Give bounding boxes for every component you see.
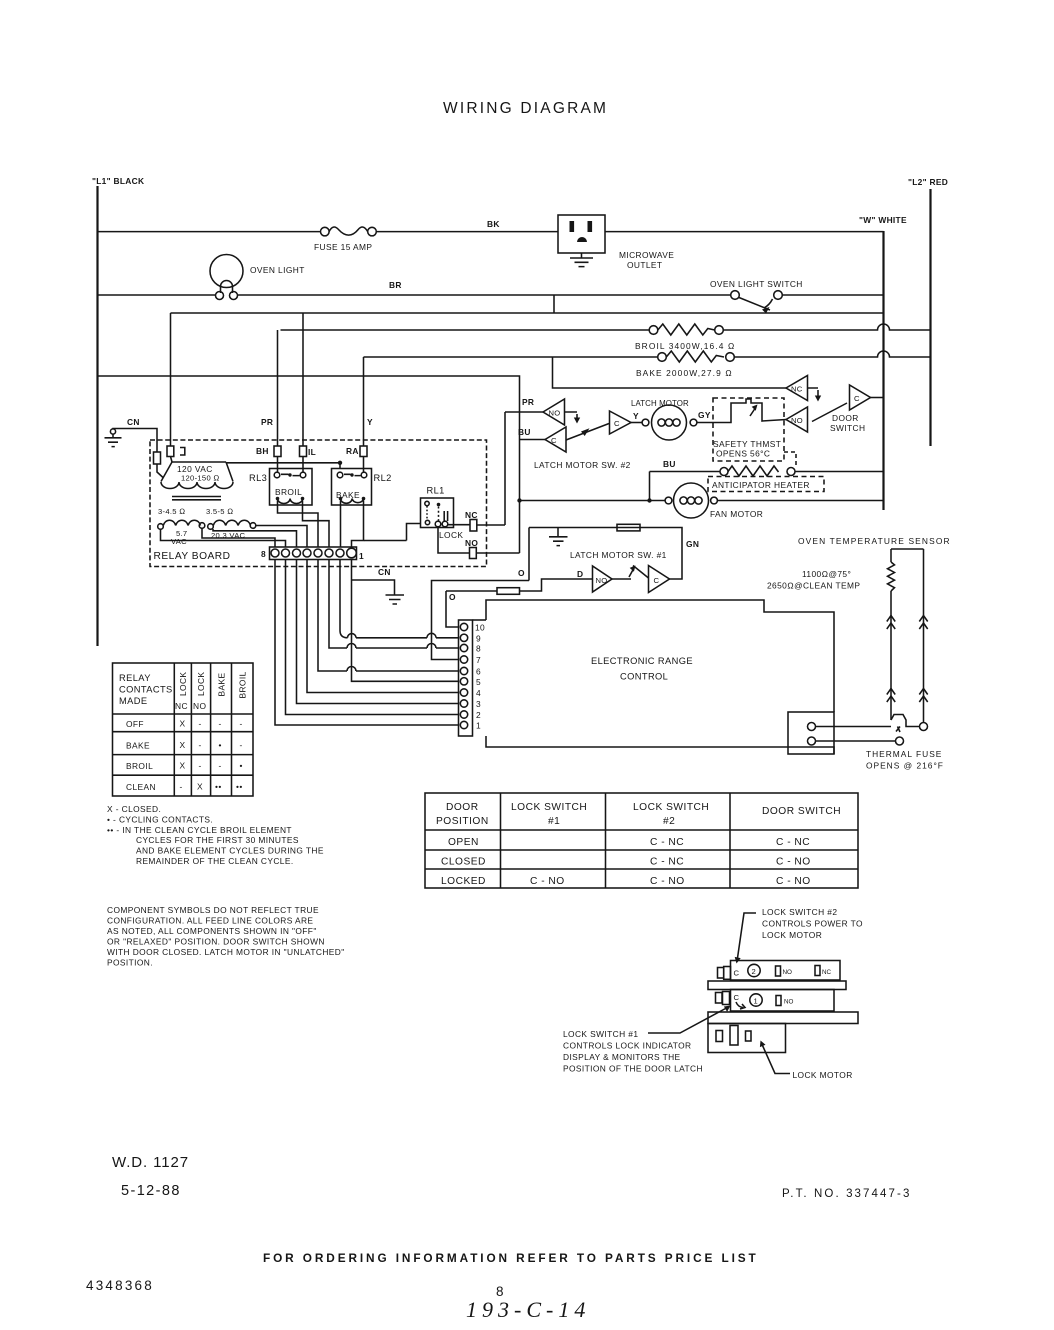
ground CN at harness — [352, 567, 405, 604]
svg-text:BROIL: BROIL — [238, 671, 248, 698]
lock assembly mid bar — [708, 981, 846, 990]
svg-text:X: X — [180, 740, 186, 750]
svg-text:REMAINDER OF THE CLEAN CYCLE.: REMAINDER OF THE CLEAN CYCLE. — [136, 856, 294, 866]
svg-text:C: C — [854, 394, 860, 403]
svg-text:MADE: MADE — [119, 696, 147, 706]
svg-text:O: O — [518, 568, 525, 578]
latch motor — [631, 399, 711, 440]
contact RA — [346, 446, 367, 472]
svg-text:•• - IN THE CLEAN CYCLE BROIL: •• - IN THE CLEAN CYCLE BROIL ELEMENT — [107, 825, 292, 835]
svg-text:•: • — [219, 740, 222, 750]
bake element 2000W — [636, 351, 734, 378]
lock switch 2 body — [718, 961, 841, 981]
svg-text:OVEN TEMPERATURE SENSOR: OVEN TEMPERATURE SENSOR — [798, 536, 951, 546]
svg-text:3-4.5 Ω: 3-4.5 Ω — [158, 507, 185, 516]
contact NC of lock relay — [448, 510, 505, 531]
svg-text:1100Ω@75°: 1100Ω@75° — [802, 569, 851, 579]
svg-text:-: - — [199, 761, 202, 771]
svg-text:8: 8 — [261, 549, 266, 559]
wire from line A down to line B — [553, 295, 555, 313]
svg-text:C - NO: C - NO — [530, 876, 565, 887]
svg-text:DOOR SWITCH: DOOR SWITCH — [762, 806, 841, 817]
wire coil taps to connector — [161, 500, 407, 547]
svg-text:NC: NC — [822, 969, 832, 976]
svg-text:10: 10 — [475, 623, 485, 633]
lock assembly lower bar — [708, 1012, 858, 1024]
svg-text:8: 8 — [476, 644, 481, 654]
svg-text:C: C — [614, 419, 620, 428]
secondary coil 5.7 VAC — [158, 507, 205, 546]
svg-text:FOR ORDERING INFORMATION REFER: FOR ORDERING INFORMATION REFER TO PARTS … — [263, 1251, 759, 1265]
svg-text:NO: NO — [549, 409, 561, 418]
latch motor switch 1 — [529, 524, 699, 592]
svg-text:CYCLES FOR THE FIRST 30 MINUTE: CYCLES FOR THE FIRST 30 MINUTES — [136, 835, 299, 845]
wire W white bus — [882, 231, 884, 510]
latch motor switch 2 NO triangle (right) — [786, 407, 808, 432]
wire RL1 NO to pin 7 — [432, 581, 530, 660]
svg-text:-: - — [199, 740, 202, 750]
svg-text:VAC: VAC — [171, 537, 187, 546]
svg-text:DOOR: DOOR — [446, 802, 479, 813]
svg-text:LOCK: LOCK — [178, 672, 188, 696]
wire line B — [171, 312, 884, 314]
svg-text:OPENS 56°C: OPENS 56°C — [716, 449, 770, 459]
svg-text:GN: GN — [686, 539, 699, 549]
lock switch assembly callout 1 — [563, 1006, 731, 1074]
svg-text:2650Ω@CLEAN TEMP: 2650Ω@CLEAN TEMP — [767, 581, 860, 591]
svg-text:X: X — [180, 719, 186, 729]
svg-text:C - NC: C - NC — [650, 857, 684, 868]
svg-text:C: C — [654, 576, 660, 585]
svg-text:RL1: RL1 — [427, 486, 445, 496]
svg-text:4348368: 4348368 — [86, 1278, 154, 1293]
svg-text:"L1" BLACK: "L1" BLACK — [92, 176, 144, 186]
svg-text:POSITION OF THE DOOR LATCH: POSITION OF THE DOOR LATCH — [563, 1064, 703, 1074]
svg-text:C - NO: C - NO — [650, 876, 685, 887]
wire IL riser — [302, 313, 304, 446]
node PR wire to latch sw2 — [505, 411, 543, 413]
wire line D bake feed — [364, 351, 931, 357]
svg-text:NO: NO — [791, 416, 803, 425]
thermal fuse — [816, 715, 944, 771]
svg-text:NO: NO — [465, 538, 478, 548]
harness wires to ERC pins — [275, 560, 459, 726]
latch motor C triangle — [610, 411, 632, 434]
svg-text:GY: GY — [698, 410, 711, 420]
svg-text:LOCK: LOCK — [196, 672, 206, 696]
svg-text:C - NC: C - NC — [650, 837, 684, 848]
wire GN box left edge — [528, 528, 530, 581]
svg-text:1: 1 — [754, 997, 759, 1006]
svg-text:CONTROLS POWER TO: CONTROLS POWER TO — [762, 919, 863, 929]
wire BU drop to fan line — [649, 472, 651, 501]
svg-text:5-12-88: 5-12-88 — [121, 1183, 181, 1199]
relay RL1 LOCK — [421, 486, 464, 541]
svg-text:-: - — [199, 719, 202, 729]
svg-text:SAFETY THMST: SAFETY THMST — [713, 439, 781, 449]
svg-text:NC: NC — [465, 510, 478, 520]
svg-text:BU: BU — [518, 427, 531, 437]
svg-text:#2: #2 — [663, 816, 675, 827]
svg-text:LOCK MOTOR: LOCK MOTOR — [793, 1070, 853, 1080]
svg-text:-: - — [219, 761, 222, 771]
wire line E — [98, 376, 520, 553]
svg-text:2: 2 — [752, 967, 757, 976]
table notes — [107, 804, 324, 866]
svg-text:LOCK SWITCH #1: LOCK SWITCH #1 — [563, 1029, 638, 1039]
svg-text:W.D. 1127: W.D. 1127 — [112, 1154, 189, 1171]
node BU wire to latch sw2 — [520, 439, 546, 441]
svg-text:RA: RA — [346, 446, 359, 456]
svg-text:CLEAN: CLEAN — [126, 782, 156, 792]
svg-text:FUSE 15 AMP: FUSE 15 AMP — [314, 242, 372, 252]
svg-text:• - CYCLING CONTACTS.: • - CYCLING CONTACTS. — [107, 815, 213, 825]
svg-text:BH: BH — [256, 446, 269, 456]
svg-text:6: 6 — [476, 667, 481, 677]
svg-text:OVEN LIGHT SWITCH: OVEN LIGHT SWITCH — [710, 279, 803, 289]
svg-text:PR: PR — [261, 417, 273, 427]
svg-text:3: 3 — [476, 699, 481, 709]
safety thermostat — [697, 398, 796, 466]
svg-text:C - NO: C - NO — [776, 857, 811, 868]
ERC pins 10..1 — [460, 623, 485, 731]
resistor to pin 10 — [446, 579, 593, 627]
svg-text:IL: IL — [308, 447, 316, 457]
latch motor switch 2 NO triangle (left) — [543, 399, 580, 425]
wire PR drop to BH — [277, 330, 279, 446]
wire bake drop to NC triangle — [553, 357, 787, 388]
svg-text:OVEN LIGHT: OVEN LIGHT — [250, 265, 305, 275]
svg-text:C: C — [734, 969, 740, 978]
svg-text:PR: PR — [522, 397, 534, 407]
svg-text:C - NC: C - NC — [776, 837, 810, 848]
svg-text:193-C-14: 193-C-14 — [466, 1297, 590, 1322]
svg-text:•: • — [240, 761, 243, 771]
svg-text:WIRING DIAGRAM: WIRING DIAGRAM — [443, 100, 608, 117]
relay board box — [150, 440, 487, 567]
wire fuse line BK — [98, 231, 884, 233]
ground at microwave outlet — [570, 253, 593, 267]
svg-text:NC: NC — [175, 701, 188, 711]
svg-text:ELECTRONIC RANGE: ELECTRONIC RANGE — [591, 656, 693, 666]
wire line A (BR) — [98, 294, 884, 296]
svg-text:"W" WHITE: "W" WHITE — [859, 215, 907, 225]
svg-text:WITH DOOR CLOSED. LATCH MOTOR: WITH DOOR CLOSED. LATCH MOTOR IN "UNLATC… — [107, 947, 345, 957]
ground CN at left — [105, 417, 158, 452]
svg-text:7: 7 — [476, 655, 481, 665]
svg-text:LATCH MOTOR SW. #2: LATCH MOTOR SW. #2 — [534, 460, 631, 470]
svg-text:CN: CN — [378, 567, 391, 577]
svg-text:RELAY: RELAY — [119, 673, 151, 683]
relay board connector strip — [261, 547, 364, 561]
wire RL1 coil feed — [407, 524, 421, 541]
svg-text:2: 2 — [476, 710, 481, 720]
svg-text:OFF: OFF — [126, 719, 144, 729]
svg-text:LATCH MOTOR SW. #1: LATCH MOTOR SW. #1 — [570, 550, 667, 560]
svg-text:BAKE: BAKE — [217, 673, 227, 697]
relay contacts table — [113, 663, 254, 796]
svg-text:BROIL 3400W,16.4 Ω: BROIL 3400W,16.4 Ω — [635, 341, 735, 351]
svg-text:LOCK SWITCH #2: LOCK SWITCH #2 — [762, 907, 837, 917]
wire PR riser — [504, 412, 506, 525]
oven temperature sensor — [767, 536, 951, 723]
svg-text:Y: Y — [633, 411, 639, 421]
svg-text:LOCK: LOCK — [439, 530, 463, 540]
lock motor callout — [760, 1041, 853, 1081]
svg-text:CONTROL: CONTROL — [620, 672, 668, 682]
svg-text:NO: NO — [784, 999, 794, 1006]
svg-text:COMPONENT SYMBOLS DO NOT REFLE: COMPONENT SYMBOLS DO NOT REFLECT TRUE — [107, 905, 319, 915]
anticipator heater — [650, 459, 884, 492]
svg-text:••: •• — [215, 782, 222, 792]
latch motor switch 2 C triangle (left) — [545, 424, 609, 453]
svg-text:CN: CN — [127, 417, 140, 427]
microwave outlet U-MW — [558, 215, 674, 270]
svg-text:BROIL: BROIL — [126, 761, 153, 771]
fan motor — [517, 483, 883, 519]
svg-text:MICROWAVE: MICROWAVE — [619, 250, 674, 260]
svg-text:CLOSED: CLOSED — [441, 857, 486, 868]
transformer 120VAC — [161, 462, 233, 500]
svg-text:X - CLOSED.: X - CLOSED. — [107, 804, 161, 814]
wire L2 red bus — [929, 189, 931, 446]
svg-text:DISPLAY & MONITORS THE: DISPLAY & MONITORS THE — [563, 1052, 681, 1062]
wire line B left drop — [170, 313, 172, 446]
svg-text:••: •• — [236, 782, 243, 792]
door switch C triangle — [812, 385, 884, 433]
svg-text:120-150 Ω: 120-150 Ω — [181, 474, 220, 483]
svg-text:-: - — [240, 719, 243, 729]
wire Y drop to RA — [363, 357, 365, 446]
svg-text:1: 1 — [476, 721, 481, 731]
svg-text:RL2: RL2 — [374, 473, 392, 483]
svg-text:POSITION.: POSITION. — [107, 958, 153, 968]
broil element 3400W — [635, 324, 735, 351]
svg-text:-: - — [219, 719, 222, 729]
svg-text:C: C — [551, 436, 557, 445]
secondary coil 20.3 VAC — [206, 507, 256, 540]
svg-text:BU: BU — [663, 459, 676, 469]
svg-text:AND BAKE ELEMENT CYCLES DURING: AND BAKE ELEMENT CYCLES DURING THE — [136, 846, 324, 856]
relay RL3 BROIL — [249, 469, 312, 506]
svg-text:RL3: RL3 — [249, 473, 267, 483]
contact IL — [300, 446, 317, 472]
svg-text:-: - — [240, 740, 243, 750]
contact BH — [256, 446, 281, 472]
svg-text:4: 4 — [476, 688, 481, 698]
lock motor body — [708, 1024, 786, 1053]
svg-text:X: X — [197, 782, 203, 792]
svg-text:3.5-5 Ω: 3.5-5 Ω — [206, 507, 233, 516]
svg-text:X: X — [180, 761, 186, 771]
oven light — [210, 255, 305, 300]
svg-text:Y: Y — [367, 417, 373, 427]
svg-text:NO: NO — [193, 701, 206, 711]
svg-text:1: 1 — [359, 551, 364, 561]
lock switch 1 body — [716, 990, 835, 1012]
svg-text:D: D — [577, 569, 583, 579]
component note paragraph — [107, 905, 345, 968]
svg-text:NO: NO — [596, 576, 608, 585]
svg-text:BR: BR — [389, 280, 402, 290]
svg-text:ANTICIPATOR HEATER: ANTICIPATOR HEATER — [712, 480, 810, 490]
svg-text:NC: NC — [791, 385, 803, 394]
svg-text:#1: #1 — [548, 816, 560, 827]
door position table — [425, 793, 858, 888]
svg-text:O: O — [449, 592, 456, 602]
svg-text:NO: NO — [783, 969, 793, 976]
fuse on transformer feed — [154, 452, 161, 464]
svg-text:OPENS @ 216°F: OPENS @ 216°F — [866, 761, 944, 771]
relay RL2 BAKE — [332, 469, 392, 506]
svg-text:LOCK SWITCH: LOCK SWITCH — [633, 802, 709, 813]
svg-text:BAKE: BAKE — [126, 741, 150, 751]
svg-text:LOCKED: LOCKED — [441, 876, 486, 887]
transformer output wire to relays — [226, 463, 340, 469]
lock switch assembly callout 2 — [735, 907, 863, 964]
svg-text:RELAY BOARD: RELAY BOARD — [154, 551, 231, 562]
svg-text:OR "RELAXED" POSITION. DOOR SW: OR "RELAXED" POSITION. DOOR SWITCH SHOWN — [107, 937, 325, 947]
svg-text:CONFIGURATION. ALL FEED LINE C: CONFIGURATION. ALL FEED LINE COLORS ARE — [107, 916, 313, 926]
wire line C broil feed — [281, 324, 931, 330]
svg-text:LOCK SWITCH: LOCK SWITCH — [511, 802, 587, 813]
svg-text:P.T. NO. 337447-3: P.T. NO. 337447-3 — [782, 1188, 911, 1200]
svg-text:THERMAL FUSE: THERMAL FUSE — [866, 749, 942, 759]
fuse 15 amp — [314, 227, 376, 252]
ERC electronic range control box — [459, 600, 835, 754]
svg-text:120 VAC: 120 VAC — [177, 464, 213, 474]
oven light switch — [710, 279, 803, 314]
svg-text:5: 5 — [476, 677, 481, 687]
plug contact on line B drop — [167, 446, 185, 462]
thermal connector box — [788, 712, 834, 754]
svg-text:OUTLET: OUTLET — [627, 260, 662, 270]
svg-text:BK: BK — [487, 219, 500, 229]
svg-text:FAN MOTOR: FAN MOTOR — [710, 509, 763, 519]
svg-text:LOCK MOTOR: LOCK MOTOR — [762, 930, 822, 940]
svg-text:OPEN: OPEN — [448, 837, 479, 848]
svg-text:BROIL: BROIL — [275, 487, 302, 497]
contact NO of lock relay — [438, 527, 520, 559]
latch motor switch 2 NC triangle (right) — [786, 376, 821, 402]
svg-text:"L2" RED: "L2" RED — [908, 177, 948, 187]
svg-text:CONTROLS LOCK INDICATOR: CONTROLS LOCK INDICATOR — [563, 1041, 691, 1051]
svg-text:DOOR: DOOR — [832, 413, 859, 423]
svg-text:C: C — [734, 993, 740, 1002]
wire L1 black bus — [96, 186, 98, 646]
svg-text:-: - — [180, 782, 183, 792]
svg-text:POSITION: POSITION — [436, 816, 489, 827]
svg-text:CONTACTS: CONTACTS — [119, 685, 173, 695]
svg-text:C - NO: C - NO — [776, 876, 811, 887]
svg-text:SWITCH: SWITCH — [830, 423, 865, 433]
svg-text:BAKE 2000W,27.9 Ω: BAKE 2000W,27.9 Ω — [636, 368, 733, 378]
svg-text:9: 9 — [476, 633, 481, 643]
svg-text:AS NOTED, ALL COMPONENTS SHOWN: AS NOTED, ALL COMPONENTS SHOWN IN "OFF" — [107, 926, 317, 936]
